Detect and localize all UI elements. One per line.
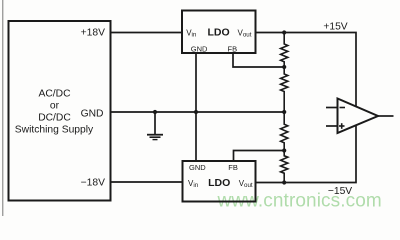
- svg-text:LDO: LDO: [208, 177, 230, 189]
- svg-text:or: or: [50, 101, 60, 112]
- svg-text:FB: FB: [228, 44, 238, 53]
- svg-text:+18V: +18V: [81, 28, 105, 39]
- svg-text:−18V: −18V: [81, 178, 105, 189]
- svg-text:AC/DC: AC/DC: [38, 89, 71, 100]
- svg-text:GND: GND: [81, 109, 104, 120]
- svg-text:+15V: +15V: [323, 22, 347, 33]
- svg-text:LDO: LDO: [208, 27, 230, 39]
- svg-text:GND: GND: [191, 44, 208, 53]
- svg-text:FB: FB: [228, 163, 238, 172]
- svg-text:GND: GND: [189, 163, 206, 172]
- svg-text:DC/DC: DC/DC: [38, 113, 71, 124]
- svg-text:Switching Supply: Switching Supply: [15, 125, 94, 136]
- svg-text:−15V: −15V: [328, 186, 352, 197]
